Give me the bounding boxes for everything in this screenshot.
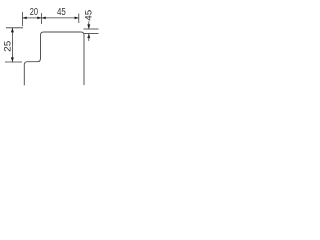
- svg-text:25: 25: [3, 41, 13, 52]
- left dimension 25: bottom tick: [5, 61, 22, 63]
- arrow pair at x=41.5: [37, 17, 41, 20]
- svg-text:20: 20: [30, 7, 39, 18]
- right dimension 45: tick upper: [84, 28, 99, 30]
- profile outline (bent bracket): [24, 32, 84, 85]
- dimension line 20: [23, 17, 42, 19]
- right dimension 45: arrow up: [87, 34, 90, 39]
- right dimension 45: arrow down: [87, 24, 90, 29]
- extension line middle (x=41.5): [41, 13, 43, 24]
- right dimension 45: upper leader line: [88, 22, 90, 29]
- svg-text:45: 45: [57, 7, 66, 18]
- left dimension 25: top tick: [6, 27, 23, 29]
- left dimension 25: arrow down: [11, 57, 14, 62]
- svg-text:45: 45: [84, 10, 94, 21]
- right dimension 45: lower leader line: [88, 34, 90, 42]
- left dimension 25: arrow up: [11, 28, 14, 33]
- dimension line 45 top: [42, 17, 79, 19]
- left dimension 25: line: [11, 28, 13, 62]
- right dimension 45: tick lower: [84, 33, 99, 35]
- arrow left of dim 20: [23, 17, 27, 20]
- extension line right (x=78.8): [78, 14, 80, 24]
- arrow right of dim 45: [75, 17, 79, 20]
- extension line left (x=22.5): [22, 12, 24, 26]
